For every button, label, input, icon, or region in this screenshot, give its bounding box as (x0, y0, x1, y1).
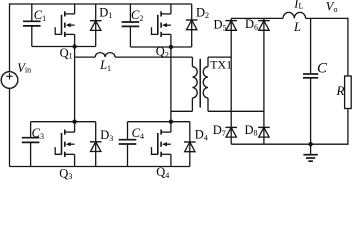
diode D3 (90, 122, 102, 167)
svg-text:TX1: TX1 (210, 57, 232, 71)
wire bottom node A (31, 121, 96, 123)
transformer core (199, 59, 201, 108)
wire R branch bottom (347, 109, 349, 145)
resistor R (345, 76, 352, 109)
mosfet Q2 (152, 4, 171, 47)
wire rectifier left column (230, 18, 232, 144)
junction output ground dot (308, 142, 312, 146)
ground (303, 144, 317, 161)
svg-text:IL: IL (293, 0, 303, 11)
diode D1 (90, 4, 102, 47)
diode D7 (225, 127, 237, 137)
mosfet Q4 (152, 122, 171, 167)
wire output bottom (231, 143, 348, 145)
transformer TX1 secondary (203, 57, 208, 111)
wire node A (32, 46, 96, 48)
wire node A vertical (74, 47, 76, 122)
mosfet Q1 (55, 4, 74, 47)
wire L1 to primary (115, 56, 192, 58)
diode D2 (186, 4, 198, 47)
source Vin (1, 72, 18, 89)
capacitor C out (303, 18, 318, 144)
wire R branch top (347, 18, 349, 76)
wire output top right (306, 17, 348, 19)
svg-text:L: L (293, 20, 301, 34)
diode D8 (258, 127, 270, 137)
wire top rail (10, 3, 192, 5)
wire secondary bottom lead (208, 110, 264, 112)
svg-text:R: R (336, 83, 345, 98)
wire rectifier right column (263, 18, 265, 144)
junction node B dot (169, 45, 173, 49)
diode D6 (258, 21, 270, 31)
junction bottom node A dot (72, 120, 76, 124)
wire bottom rail (10, 166, 190, 168)
svg-text:C: C (317, 61, 328, 77)
mosfet Q3 (55, 122, 74, 167)
capacitor C1 (23, 4, 41, 47)
diode D5 (225, 21, 237, 31)
capacitor C2 (122, 4, 140, 47)
transformer TX1 primary (192, 57, 197, 111)
wire L1 left lead (75, 56, 96, 58)
wire bottom node B (128, 121, 190, 123)
junction bottom node B dot (169, 120, 173, 124)
junction node A dot (72, 44, 76, 48)
wire secondary top lead (208, 56, 231, 58)
inductor L1 (95, 53, 115, 58)
capacitor C4 (119, 122, 137, 167)
wire node B vertical (170, 47, 172, 122)
wire left rail upper (9, 3, 11, 71)
wire primary return (171, 110, 193, 112)
inductor L (283, 12, 306, 18)
capacitor C3 (22, 122, 40, 167)
wire left rail lower (9, 88, 11, 166)
diode D4 (184, 122, 196, 167)
wire node B (130, 46, 191, 48)
wire output top left (231, 17, 283, 19)
